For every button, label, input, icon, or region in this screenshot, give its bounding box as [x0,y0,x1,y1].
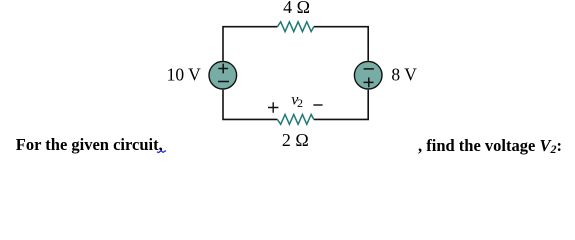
V2src minus sign (top inside circle) [364,68,374,70]
wire: bottom-right segment with lower-right vertical [314,90,368,120]
wire: top-left segment with upper-left vertical [223,27,277,61]
svg-text:For the given circuit,: For the given circuit, [16,135,163,154]
blue grammar squiggle [157,151,166,153]
wire: top-right segment with upper-right vertical [314,27,368,61]
voltage source V1 (10 V), circle body [209,61,237,89]
polarity minus for v2 [313,104,322,106]
polarity plus for v2 [268,102,278,112]
voltage source V2src (8 V), circle body [354,61,382,89]
wire: bottom-left segment with lower-left vertical [223,90,277,120]
resistor R1 zigzag (4 ohm, top) [277,22,313,32]
svg-text:, find the voltage V2:: , find the voltage V2: [418,136,562,156]
V1 minus sign (bottom inside circle) [218,81,229,83]
V2src plus sign (bottom inside circle) [364,78,374,88]
resistor R2 zigzag (2 ohm, bottom) [277,115,313,125]
svg-text:4 Ω: 4 Ω [283,0,310,17]
svg-text:8 V: 8 V [391,65,417,85]
svg-text:10 V: 10 V [167,65,202,85]
V1 plus sign (top inside circle) [218,64,228,74]
svg-text:2: 2 [297,96,303,110]
svg-text:2 Ω: 2 Ω [282,130,309,150]
